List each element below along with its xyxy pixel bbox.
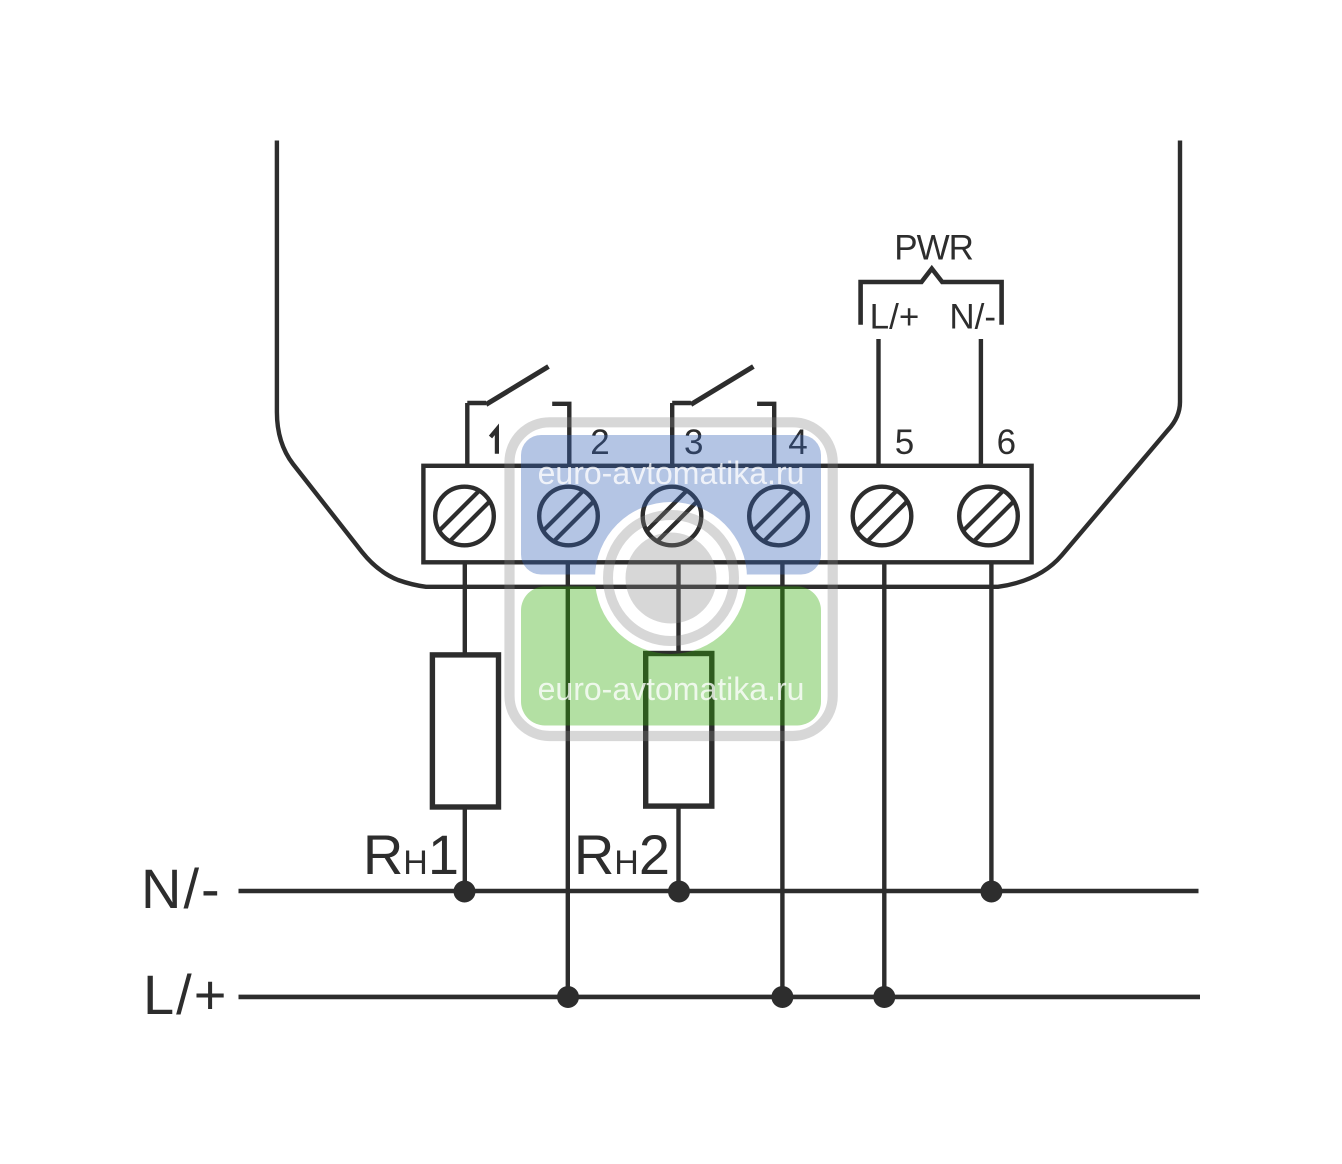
junction dot node R1/N [454,881,476,903]
junction dot node 4/L [771,986,793,1008]
switch SW2 right contact [757,404,774,466]
pin 3 wire [670,403,674,466]
L/+ bus line [239,995,1201,1000]
watermark center disc [626,533,717,624]
svg-text:euro-avtomatika.ru: euro-avtomatika.ru [538,671,805,707]
N/- bus line [239,889,1199,894]
resistor R1 [432,655,498,807]
svg-text:N/-: N/- [141,857,222,920]
switch SW1 right contact [552,404,569,466]
junction dot node 6/N [980,881,1002,903]
svg-text:euro-avtomatika.ru: euro-avtomatika.ru [538,455,805,491]
switch SW1 left foot [467,401,486,405]
pin 1 wire [465,403,469,466]
resistor R2 [646,654,712,807]
wire terminal4 to L/+ bus [780,562,784,997]
junction dot node 2/L [557,986,579,1008]
watermark blue panel [521,435,821,575]
junction dot node R2/N [668,881,690,903]
wire terminal1 to resistor R1 [463,562,467,655]
wire terminal5 to L/+ bus [882,562,886,997]
screw terminal 4 [737,475,820,558]
device enclosure outline [277,141,1180,587]
watermark center ring [608,515,734,641]
switch SW2 blade [691,367,754,405]
svg-text:L/+: L/+ [870,298,920,337]
screw terminal 5 [841,475,924,558]
pin number 1 [491,429,497,454]
wire terminal2 to L/+ bus [566,562,570,997]
svg-text:RH1: RH1 [363,823,459,886]
svg-text:5: 5 [895,423,914,462]
watermark overlay [510,422,833,736]
watermark green panel [521,586,821,725]
wire terminal3 to resistor R2 [676,562,680,653]
PWR bracket [861,269,1002,325]
svg-text:N/-: N/- [949,298,996,337]
switch SW2 left foot [672,401,691,405]
watermark outer gray ring [510,422,833,736]
switch SW1 blade [486,367,549,405]
wire terminal6 to N/- bus [989,562,993,891]
svg-text:L/+: L/+ [143,963,228,1026]
junction dot node 5/L [873,986,895,1008]
screw terminal 6 [947,475,1030,558]
wire R2 to N/- bus [676,806,680,891]
terminal block [423,466,1031,563]
screw terminal 1 [423,475,506,558]
pin 6 wire from N/- [979,339,983,466]
wire R1 to N/- bus [463,807,467,891]
svg-text:PWR: PWR [894,229,973,268]
svg-text:RH2: RH2 [574,823,670,886]
svg-text:6: 6 [997,423,1016,462]
screw terminal 3 [631,475,714,558]
schematic layer [239,141,1201,997]
screw terminal 2 [527,475,610,558]
pin 5 wire from L/+ [876,339,880,466]
